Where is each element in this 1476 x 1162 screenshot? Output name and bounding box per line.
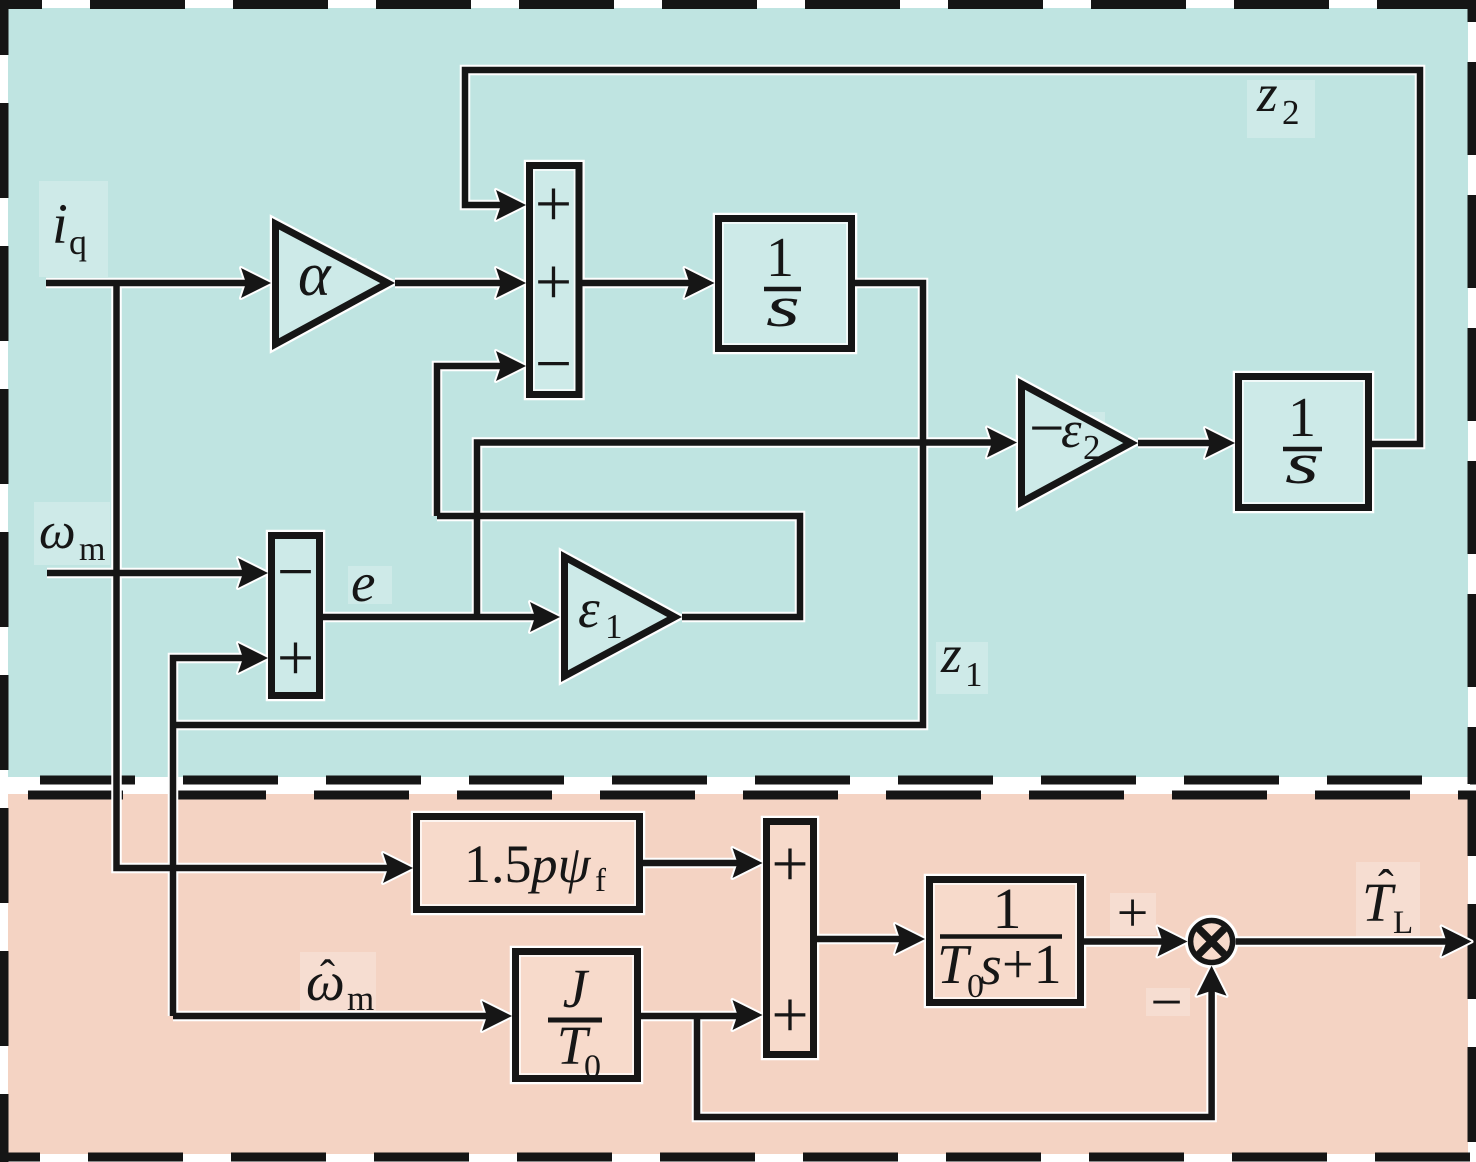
svg-text:1: 1	[965, 655, 983, 694]
svg-text:α: α	[298, 241, 332, 309]
svg-text:+: +	[1117, 883, 1149, 945]
svg-text:s: s	[980, 935, 1002, 997]
svg-text:e: e	[351, 552, 375, 613]
svg-text:s: s	[766, 274, 800, 339]
svg-text:2: 2	[1083, 428, 1101, 467]
svg-text:+1: +1	[1002, 934, 1062, 996]
svg-text:z: z	[1256, 65, 1278, 123]
svg-text:1: 1	[605, 607, 623, 646]
svg-text:+: +	[771, 828, 808, 901]
svg-text:z: z	[940, 626, 962, 684]
svg-text:ε: ε	[578, 578, 600, 639]
svg-text:m: m	[79, 531, 105, 568]
svg-text:i: i	[52, 193, 68, 256]
svg-text:−: −	[1150, 971, 1182, 1034]
svg-text:ω: ω	[39, 503, 76, 560]
svg-text:−: −	[1029, 393, 1065, 463]
svg-text:m: m	[347, 979, 374, 1018]
svg-text:1.5: 1.5	[464, 834, 532, 894]
svg-text:J: J	[563, 958, 590, 1019]
svg-text:L: L	[1393, 905, 1413, 941]
svg-text:ε: ε	[1061, 402, 1082, 459]
svg-text:+: +	[535, 168, 572, 241]
svg-text:−: −	[535, 328, 572, 401]
svg-text:+: +	[535, 246, 572, 319]
svg-text:f: f	[595, 863, 606, 899]
svg-text:ˆ: ˆ	[320, 951, 335, 1001]
svg-text:pψ: pψ	[527, 836, 592, 894]
svg-text:1: 1	[993, 876, 1022, 941]
svg-text:0: 0	[584, 1049, 601, 1086]
svg-text:−: −	[277, 536, 314, 609]
svg-text:+: +	[771, 979, 808, 1052]
svg-text:q: q	[69, 222, 87, 262]
svg-text:+: +	[277, 622, 314, 695]
svg-text:2: 2	[1282, 93, 1300, 132]
svg-text:ˆ: ˆ	[1378, 861, 1394, 913]
svg-text:s: s	[1285, 431, 1319, 496]
